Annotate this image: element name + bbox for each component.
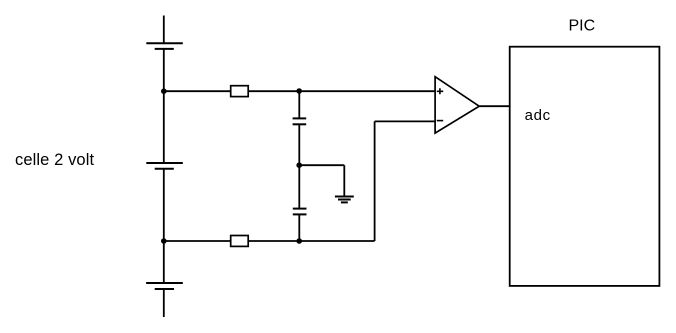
ground bar 3 — [341, 201, 348, 203]
svg-text:celle 2 volt: celle 2 volt — [15, 151, 94, 169]
wire bottom row left segment — [164, 240, 231, 242]
wire battery column between B1 and B2 — [163, 49, 165, 163]
wire battery bottom lead — [163, 289, 165, 317]
wire capacitor branch upper — [298, 91, 300, 118]
junction node battery top / R1 — [161, 88, 167, 94]
op-amp U1 triangle — [435, 77, 479, 133]
battery B2 middle cell long plate — [146, 162, 183, 164]
wire mid node to C2 — [298, 165, 300, 208]
wire feedback vertical riser — [374, 121, 376, 241]
wire top row left segment — [164, 90, 231, 92]
junction node R1 / C1 — [296, 88, 302, 94]
wire battery column between B2 and B3 — [163, 169, 165, 283]
capacitor C2 upper plate — [293, 208, 307, 210]
capacitor C1 lower plate — [293, 123, 307, 125]
wire ground stem — [343, 165, 345, 196]
capacitor C1 upper plate — [293, 117, 307, 119]
battery B2 middle cell short plate — [155, 168, 174, 170]
svg-text:PIC: PIC — [569, 17, 596, 34]
resistor R2 — [231, 236, 249, 247]
wire top row to op-amp plus input — [248, 90, 435, 92]
battery B3 bottom cell short plate — [155, 288, 174, 290]
junction node C1 / C2 / ground — [296, 162, 302, 168]
op-amp minus marker — [437, 120, 443, 122]
battery B1 top cell long plate — [146, 42, 183, 44]
junction node battery bottom / R2 — [161, 238, 167, 244]
wire C1 to mid node — [298, 124, 300, 165]
op-amp plus marker — [437, 88, 443, 94]
wire C2 to bottom row — [298, 214, 300, 241]
resistor R1 — [231, 86, 249, 97]
wire to op-amp minus input — [375, 120, 436, 122]
svg-text:adc: adc — [525, 107, 551, 124]
PIC box U2 — [510, 47, 660, 286]
ground bar 1 — [335, 196, 354, 198]
capacitor C2 lower plate — [293, 213, 307, 215]
battery B3 bottom cell long plate — [146, 282, 183, 284]
wire bottom row right segment — [248, 240, 374, 242]
ground bar 2 — [338, 199, 351, 201]
wire mid node to ground branch horizontal — [299, 164, 344, 166]
battery B1 top cell short plate — [155, 48, 174, 50]
junction node C2 / bottom row — [296, 238, 302, 244]
wire battery top lead — [163, 16, 165, 44]
wire op-amp output to PIC — [479, 105, 510, 107]
